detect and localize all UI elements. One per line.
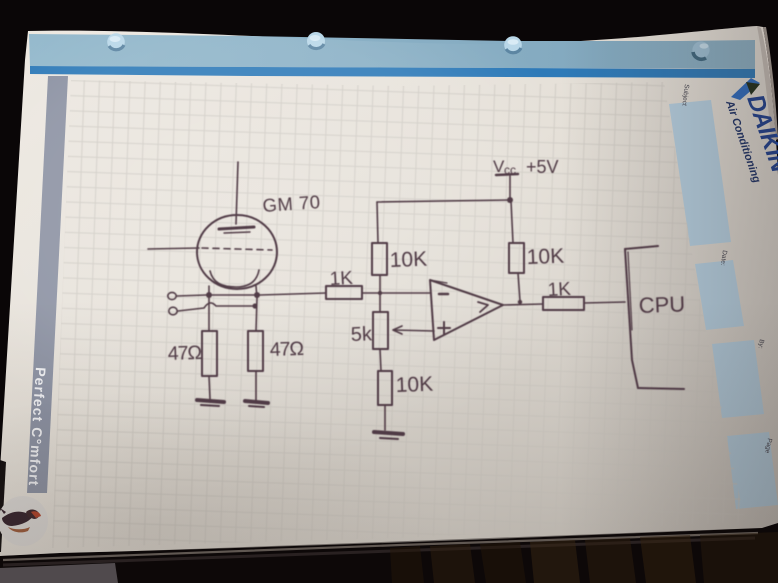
punch hole 2: [307, 32, 325, 50]
potentiometer 5k body: [373, 312, 388, 349]
op-amp minus sign: [439, 293, 448, 296]
resistor 1K output body: [543, 297, 584, 310]
wire 10K right to output node: [518, 273, 520, 301]
header dark blue stripe: [30, 66, 755, 78]
resistor 10K feedback body: [372, 243, 387, 275]
input terminal 2: [169, 307, 177, 315]
svg-text:10K: 10K: [395, 373, 433, 397]
punch hole 3: [504, 36, 522, 54]
wire node A to node B: [212, 294, 254, 296]
node D junction: [378, 291, 382, 295]
resistor 47ohm left body: [202, 331, 217, 376]
wire node D down to potentiometer 5k: [379, 294, 381, 312]
resistor 10K right body: [509, 243, 524, 273]
wire 10K lower to ground: [384, 405, 386, 430]
tube right leg wire: [256, 286, 257, 298]
Vcc node junction dot: [507, 197, 513, 203]
resistor 47ohm right body: [248, 331, 263, 371]
bottom dark band details: [0, 523, 778, 583]
ground (right 47ohm): [245, 401, 268, 403]
left edge dark sliver: [0, 460, 6, 552]
op-amp chevron mark: [478, 302, 488, 312]
wire 1K to node D: [362, 292, 380, 294]
feedback horizontal wire to Vcc node: [377, 200, 510, 202]
wire terminal2 with hop to node C: [178, 303, 252, 311]
CPU bracket vertical: [625, 249, 638, 388]
wire 47ohm right to ground: [255, 371, 257, 400]
curled page edge top-right: [757, 26, 776, 141]
wire 5k to 10K lower: [380, 349, 381, 371]
vacuum tube GM70 grid dashed line: [202, 248, 272, 250]
grid lead wire (left): [148, 248, 199, 249]
header band light blue: [29, 34, 755, 69]
DAIKIN logo glyph: [731, 78, 760, 100]
svg-text:10K: 10K: [526, 245, 564, 269]
node B junction dot: [254, 292, 260, 298]
svg-text:47Ω: 47Ω: [269, 338, 303, 361]
svg-text:1K: 1K: [547, 279, 572, 301]
wire node D to op-amp minus input: [380, 292, 431, 294]
wire Vcc node to 10K right: [511, 201, 513, 243]
CPU bracket bottom hook: [638, 388, 684, 389]
right sidebar column: [669, 84, 778, 509]
wire Vcc bar to node: [509, 176, 511, 199]
node C junction dot: [252, 303, 257, 308]
vacuum tube GM70 envelope: [197, 215, 277, 289]
punch hole 1: [107, 33, 125, 51]
node A junction dot: [206, 292, 212, 298]
underlying pages edge line at bottom: [3, 533, 758, 560]
ground (left 47ohm): [197, 400, 224, 402]
svg-text:CPU: CPU: [638, 291, 685, 318]
op-amp plus sign: [438, 327, 450, 329]
vacuum tube GM70 cathode arc: [210, 270, 259, 287]
svg-text:10K: 10K: [389, 248, 427, 272]
Vcc power bar: [496, 174, 518, 175]
svg-text:GM 70: GM 70: [262, 191, 321, 216]
wire node A down to resistor 47ohm left: [208, 298, 210, 331]
feedback wire node D up (10K left top lead): [377, 202, 378, 243]
svg-text:5k: 5k: [350, 323, 373, 346]
wire node B down through node C to resistor 47ohm right: [256, 298, 257, 331]
wire 47ohm left to ground: [209, 376, 210, 399]
comfort logo circle: [0, 496, 48, 546]
input terminal 1: [168, 292, 176, 299]
left margin stripe (Perfect Comfort band): [27, 76, 68, 493]
svg-text:+5V: +5V: [526, 157, 559, 177]
wire op-amp plus input to 5k wiper with arrowhead: [394, 330, 434, 331]
svg-text:1K: 1K: [329, 268, 354, 290]
op-amp output wire: [503, 304, 543, 305]
output node junction: [518, 300, 522, 304]
resistor 1K input body: [326, 286, 362, 299]
vacuum tube GM70 anode lead wire: [236, 162, 238, 224]
op-amp U1 body: [430, 280, 503, 340]
svg-text:47Ω: 47Ω: [167, 342, 201, 365]
wire 10K feedback bottom to node D: [379, 275, 381, 292]
ground (below 10K lower): [374, 432, 403, 434]
vacuum tube GM70 top electrode bar: [219, 227, 254, 229]
wire 1K output to CPU: [584, 302, 625, 303]
wire node B to resistor 1K input: [260, 293, 326, 295]
tube left leg wire: [208, 286, 210, 296]
svg-text:cc: cc: [504, 163, 516, 177]
wire terminal1 to node A: [177, 295, 206, 296]
CPU bracket top hook: [625, 246, 658, 249]
punch hole 4: [692, 41, 709, 59]
resistor 10K lower body: [378, 371, 392, 405]
